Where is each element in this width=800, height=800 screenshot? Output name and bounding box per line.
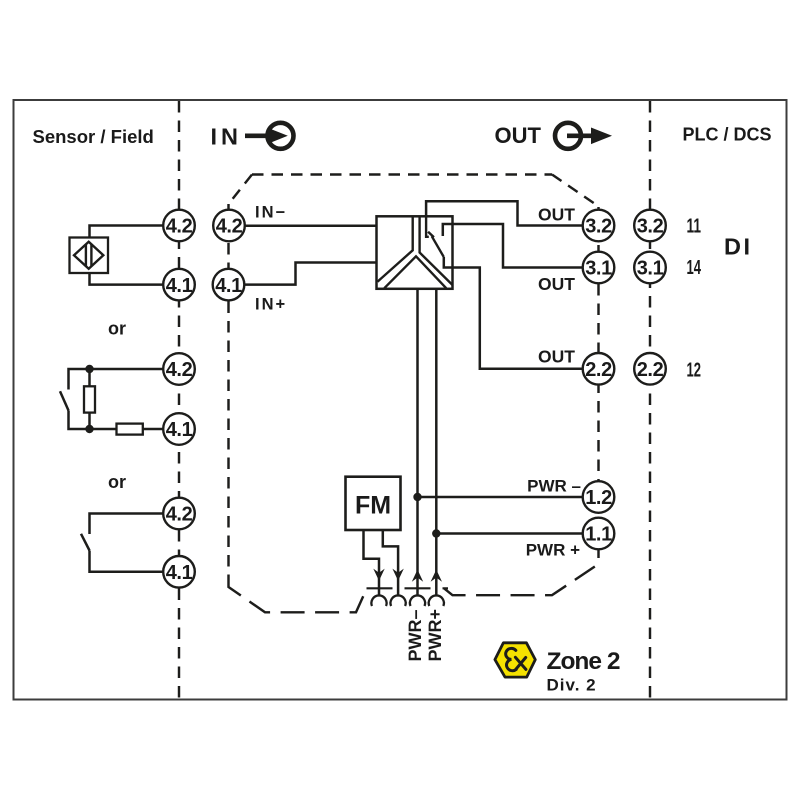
- svg-text:3.2: 3.2: [585, 216, 612, 238]
- svg-text:4.2: 4.2: [166, 359, 193, 381]
- svg-text:or: or: [108, 472, 126, 492]
- svg-text:1.1: 1.1: [585, 524, 612, 546]
- svg-text:4.1: 4.1: [166, 562, 193, 584]
- svg-text:IN: IN: [211, 124, 243, 150]
- svg-text:IN+: IN+: [255, 296, 287, 314]
- svg-text:OUT: OUT: [538, 274, 575, 294]
- svg-text:FM: FM: [355, 492, 391, 520]
- svg-text:Sensor / Field: Sensor / Field: [33, 126, 154, 147]
- svg-text:14: 14: [687, 257, 702, 279]
- svg-text:4.2: 4.2: [166, 504, 193, 526]
- svg-text:PLC / DCS: PLC / DCS: [683, 125, 772, 145]
- svg-text:PWR+: PWR+: [425, 609, 445, 662]
- svg-text:4.1: 4.1: [166, 275, 193, 297]
- svg-text:11: 11: [687, 216, 702, 238]
- svg-text:2.2: 2.2: [585, 359, 612, 381]
- svg-text:3.2: 3.2: [637, 216, 664, 238]
- svg-text:4.1: 4.1: [215, 275, 242, 297]
- svg-text:PWR–: PWR–: [405, 609, 425, 661]
- svg-text:OUT: OUT: [538, 204, 575, 224]
- svg-text:4.2: 4.2: [166, 216, 193, 238]
- svg-text:Zone 2: Zone 2: [547, 648, 620, 675]
- svg-text:OUT: OUT: [538, 346, 575, 366]
- svg-text:IN−: IN−: [255, 204, 287, 222]
- svg-text:or: or: [108, 318, 126, 338]
- svg-text:PWR +: PWR +: [526, 541, 580, 560]
- svg-text:PWR –: PWR –: [527, 477, 581, 496]
- svg-text:12: 12: [687, 359, 702, 381]
- svg-text:4.2: 4.2: [216, 216, 243, 238]
- svg-text:OUT: OUT: [495, 123, 542, 148]
- svg-text:DI: DI: [724, 233, 753, 259]
- svg-text:4.1: 4.1: [166, 419, 193, 441]
- svg-text:Div. 2: Div. 2: [547, 676, 597, 695]
- svg-text:3.1: 3.1: [637, 258, 664, 280]
- svg-text:3.1: 3.1: [585, 258, 612, 280]
- svg-text:1.2: 1.2: [585, 487, 612, 509]
- svg-text:2.2: 2.2: [637, 359, 664, 381]
